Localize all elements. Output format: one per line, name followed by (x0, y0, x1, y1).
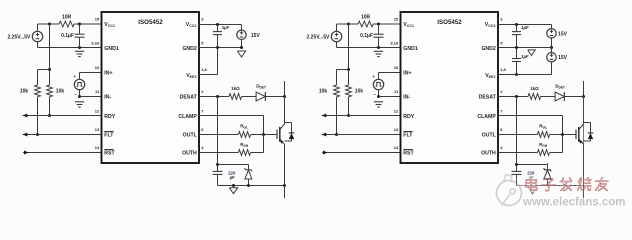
svg-text:−: − (74, 92, 77, 97)
svg-text:+: + (73, 74, 76, 79)
svg-text:13: 13 (394, 127, 399, 132)
svg-text:10: 10 (394, 65, 399, 70)
svg-text:OUTL: OUTL (183, 133, 198, 139)
svg-text:10R: 10R (361, 15, 371, 21)
svg-text:1,8: 1,8 (500, 67, 506, 72)
svg-text:15: 15 (394, 17, 399, 22)
svg-text:2.25V...5V: 2.25V...5V (8, 34, 32, 40)
svg-text:DESAT: DESAT (479, 95, 497, 101)
svg-text:0.1µF: 0.1µF (360, 33, 373, 39)
svg-text:pF: pF (230, 175, 236, 180)
svg-text:1,8: 1,8 (201, 67, 207, 72)
svg-text:CLAMP: CLAMP (477, 114, 496, 120)
svg-text:12: 12 (394, 108, 399, 113)
svg-text:www.elecfans.com: www.elecfans.com (522, 197, 625, 209)
svg-text:15: 15 (95, 17, 100, 22)
svg-text:−: − (373, 92, 376, 97)
svg-text:ISO5452: ISO5452 (138, 19, 163, 26)
svg-text:OUTL: OUTL (482, 133, 497, 139)
svg-text:1µF: 1µF (521, 25, 529, 30)
svg-text:IN-: IN- (104, 95, 111, 101)
svg-text:OUTH: OUTH (481, 151, 496, 157)
svg-text:ISO5452: ISO5452 (437, 19, 462, 26)
svg-text:9,16: 9,16 (390, 40, 399, 45)
svg-text:13: 13 (95, 127, 100, 132)
svg-text:10: 10 (95, 65, 100, 70)
svg-text:1µF: 1µF (222, 25, 230, 30)
svg-text:CLAMP: CLAMP (178, 114, 197, 120)
svg-text:15V: 15V (251, 33, 261, 39)
svg-text:GND2: GND2 (182, 46, 197, 52)
svg-text:9,16: 9,16 (91, 40, 100, 45)
svg-text:FLT: FLT (403, 133, 413, 139)
svg-text:15V: 15V (558, 55, 568, 61)
svg-text:RDY: RDY (403, 114, 414, 120)
svg-text:RDY: RDY (104, 114, 115, 120)
svg-text:15V: 15V (558, 31, 568, 37)
svg-text:0.1µF: 0.1µF (61, 33, 74, 39)
svg-text:12: 12 (95, 108, 100, 113)
svg-text:RST: RST (104, 151, 115, 157)
svg-text:1kΩ: 1kΩ (530, 86, 539, 91)
svg-text:FLT: FLT (104, 133, 114, 139)
svg-text:GND1: GND1 (403, 46, 418, 52)
svg-text:OUTH: OUTH (182, 151, 197, 157)
svg-text:10k: 10k (20, 89, 29, 95)
svg-text:GND1: GND1 (104, 46, 119, 52)
svg-text:GND2: GND2 (481, 46, 496, 52)
svg-text:IN+: IN+ (403, 71, 411, 77)
svg-text:14: 14 (394, 145, 399, 150)
svg-text:10k: 10k (355, 89, 364, 95)
svg-text:1µF: 1µF (521, 54, 529, 59)
svg-text:2.25V...5V: 2.25V...5V (307, 34, 331, 40)
svg-text:RST: RST (403, 151, 414, 157)
svg-text:10k: 10k (56, 89, 65, 95)
svg-text:IN-: IN- (403, 95, 410, 101)
svg-text:IN+: IN+ (104, 71, 112, 77)
svg-text:10k: 10k (319, 89, 328, 95)
svg-text:DESAT: DESAT (180, 95, 198, 101)
svg-text:10R: 10R (62, 15, 72, 21)
svg-text:1kΩ: 1kΩ (231, 86, 240, 91)
svg-text:14: 14 (95, 145, 100, 150)
svg-text:+: + (372, 74, 375, 79)
